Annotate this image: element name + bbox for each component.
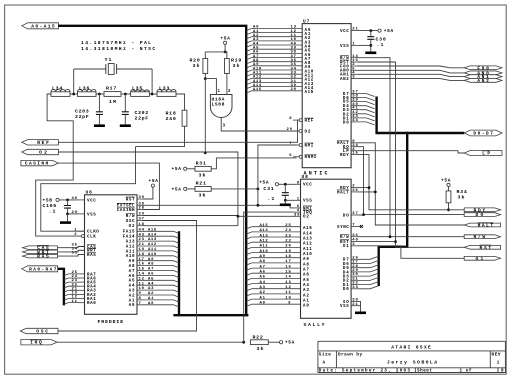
svg-text:VCC: VCC xyxy=(303,184,312,188)
svg-text:A2: A2 xyxy=(129,294,135,298)
svg-text:22: 22 xyxy=(285,240,291,244)
D bus tap xyxy=(357,118,375,121)
U6 pin 18 O2 xyxy=(137,225,143,227)
U6 pin 40 VCC xyxy=(78,199,85,201)
U8 pin 32 D1 xyxy=(351,284,357,286)
svg-text:A10: A10 xyxy=(148,253,157,257)
svg-text:A8: A8 xyxy=(148,263,154,267)
net label R/W xyxy=(464,235,500,239)
U7 pin 29 O2 xyxy=(299,130,302,133)
svg-text:Y1: Y1 xyxy=(105,57,112,63)
svg-text:D0: D0 xyxy=(343,288,349,292)
U7 pin 40 D4 xyxy=(351,105,357,107)
U8 pin 13 A4 xyxy=(246,284,252,286)
resistor R20 xyxy=(203,59,208,74)
svg-text:CASINH: CASINH xyxy=(117,209,135,213)
IC U8 SALLY body xyxy=(301,179,352,318)
svg-text:1: 1 xyxy=(297,197,300,201)
wire RDY net xyxy=(357,155,464,210)
U8 pin 39 O2 xyxy=(295,215,301,217)
net label AN0 xyxy=(464,71,502,75)
power +5A at U7 VCC xyxy=(378,29,381,32)
resistor R17 xyxy=(104,92,121,97)
U8 pin 38 SO xyxy=(351,300,357,302)
RA bus tap xyxy=(64,299,78,301)
wire to U6 VSS xyxy=(68,213,79,215)
U8 pin 15 A6 xyxy=(246,273,252,275)
wire crystal right down to L35/L33 node xyxy=(151,69,153,94)
junction DO xyxy=(362,213,365,216)
ground under C30 xyxy=(365,51,376,54)
RA bus tap xyxy=(64,290,78,292)
svg-text:A7: A7 xyxy=(303,269,309,273)
svg-text:A3: A3 xyxy=(260,286,266,290)
U6 pin 15 A7 xyxy=(137,271,179,273)
resistor R22 xyxy=(250,340,268,345)
net label AN1 xyxy=(464,75,502,79)
wire U8 VSS to ground xyxy=(357,306,360,312)
svg-text:22pF: 22pF xyxy=(75,114,89,120)
D bus tap xyxy=(357,122,375,125)
U8 pin 22 A12 xyxy=(246,242,252,244)
capacitor C30 plates xyxy=(367,37,374,40)
svg-text:R20: R20 xyxy=(190,58,200,64)
svg-text:Date: September 23, 2003: Date: September 23, 2003 xyxy=(319,369,411,374)
svg-text:+5A: +5A xyxy=(259,179,269,185)
svg-text:A6: A6 xyxy=(303,274,309,278)
svg-text:25: 25 xyxy=(285,224,291,228)
wire to C30 xyxy=(370,31,372,37)
svg-text:A3: A3 xyxy=(129,290,135,294)
svg-text:A2: A2 xyxy=(260,291,266,295)
data bus vertical and to label xyxy=(377,97,465,134)
wire R18 wrap to U6 CLKO xyxy=(41,147,136,232)
svg-text:VSS: VSS xyxy=(340,305,349,309)
svg-text:11: 11 xyxy=(285,291,291,295)
freddie address bus FA xyxy=(178,231,180,315)
svg-text:R18: R18 xyxy=(166,111,176,117)
wire crystal left xyxy=(74,68,106,70)
D bus tap xyxy=(357,98,375,101)
svg-text:OSC: OSC xyxy=(36,329,48,335)
svg-text:R22: R22 xyxy=(253,335,263,341)
U7 pin 30 A14 xyxy=(246,87,252,89)
svg-text:11: 11 xyxy=(139,282,145,286)
U7 pin 6 RNMI xyxy=(299,155,302,158)
svg-text:O2: O2 xyxy=(129,225,135,229)
svg-text:9: 9 xyxy=(288,302,291,306)
svg-text:A6: A6 xyxy=(260,271,266,275)
svg-text:A0-A15: A0-A15 xyxy=(31,23,55,29)
svg-text:VSS: VSS xyxy=(303,200,312,204)
wire +5A to R34 xyxy=(448,187,450,191)
junction R20 bottom xyxy=(204,77,207,80)
svg-text:36: 36 xyxy=(352,234,358,238)
junction R21/NMI xyxy=(257,188,260,191)
svg-text:Drawn by: Drawn by xyxy=(338,352,363,357)
svg-text:A6: A6 xyxy=(129,275,135,279)
svg-text:A5: A5 xyxy=(129,280,135,284)
net label RDY xyxy=(464,208,500,212)
svg-text:3k: 3k xyxy=(458,194,465,200)
svg-text:A3: A3 xyxy=(303,289,309,293)
svg-text:8: 8 xyxy=(289,117,292,121)
svg-text:44: 44 xyxy=(352,119,358,123)
wire U8 HALT to net xyxy=(357,191,375,193)
inductor L35 xyxy=(131,92,150,97)
U6 pin 16 A8 xyxy=(137,266,179,268)
svg-text:44: 44 xyxy=(139,228,145,232)
svg-text:.1: .1 xyxy=(267,196,274,202)
svg-text:+5B: +5B xyxy=(43,197,53,203)
junction L36/R17/C203 xyxy=(98,93,101,96)
wire to C31 xyxy=(284,184,286,192)
svg-text:21: 21 xyxy=(139,243,145,247)
capacitor C203 plates xyxy=(96,112,103,115)
junction RST U8 xyxy=(394,240,397,243)
U8 pin 11 A2 xyxy=(246,294,252,296)
svg-text:A11: A11 xyxy=(303,248,312,252)
svg-text:A13: A13 xyxy=(303,237,312,241)
wire IRQ net xyxy=(57,341,244,343)
wire AN1 net xyxy=(357,74,464,76)
wire to C202 xyxy=(124,94,126,112)
wire IRQ to U8 xyxy=(244,212,295,342)
IC U6 FREDDIE body xyxy=(85,195,138,314)
U7 pin 20 A15 xyxy=(246,91,252,93)
wire crystal right xyxy=(117,68,153,70)
U7 pin 37 A7 xyxy=(246,58,252,60)
U7 pin 38 D6 xyxy=(351,96,357,98)
svg-text:A9: A9 xyxy=(303,258,309,262)
svg-text:20: 20 xyxy=(72,211,78,215)
svg-text:19: 19 xyxy=(139,248,145,252)
U6 pin 38 EXTSEL xyxy=(137,204,143,206)
svg-text:CASINH: CASINH xyxy=(25,161,49,167)
svg-text:15: 15 xyxy=(285,271,291,275)
U7 pin 41 D3 xyxy=(351,109,357,111)
junction C105 top xyxy=(66,199,69,202)
U6 pin 28 CASINH xyxy=(137,209,143,211)
svg-text:A14: A14 xyxy=(260,229,269,233)
svg-text:29: 29 xyxy=(139,213,145,217)
wire L33 to R18 xyxy=(176,94,185,110)
svg-text:RDY: RDY xyxy=(340,154,349,158)
wire RAS xyxy=(58,254,85,256)
U8 pin 21 VSS xyxy=(351,305,357,307)
svg-text:17: 17 xyxy=(285,260,291,264)
svg-text:RST: RST xyxy=(480,245,492,251)
svg-text:IRQ: IRQ xyxy=(30,340,42,346)
U6 pin 19 A11 xyxy=(137,251,179,253)
RA bus tap xyxy=(64,294,78,296)
svg-text:AN2: AN2 xyxy=(477,78,489,84)
U8 pin 20 A11 xyxy=(246,247,252,249)
svg-text:A2: A2 xyxy=(148,292,154,296)
address bus bottom connector xyxy=(173,314,248,316)
svg-text:R21: R21 xyxy=(196,180,206,186)
resistor R19 xyxy=(225,59,230,74)
svg-text:39: 39 xyxy=(139,196,145,200)
svg-text:+5A: +5A xyxy=(441,177,451,183)
U6 pin 8 A1 xyxy=(137,300,179,302)
svg-text:14: 14 xyxy=(139,273,145,277)
svg-text:A2: A2 xyxy=(303,294,309,298)
svg-text:+5A: +5A xyxy=(285,340,295,346)
U7 pin 33 A11 xyxy=(246,74,252,76)
svg-text:A13: A13 xyxy=(148,238,157,242)
svg-text:D5: D5 xyxy=(343,101,349,105)
svg-text:A12: A12 xyxy=(126,245,135,249)
U7 pin 39 D5 xyxy=(351,100,357,102)
wire C105 bottom xyxy=(67,208,69,214)
svg-text:R19: R19 xyxy=(231,58,241,64)
capacitor C105 plates xyxy=(64,206,71,209)
wire R19 top xyxy=(225,52,227,59)
U7 pin 31 A13 xyxy=(246,83,252,85)
svg-text:C203: C203 xyxy=(75,109,89,115)
svg-text:13: 13 xyxy=(285,281,291,285)
power +5A above R19 xyxy=(224,41,227,44)
svg-text:L33: L33 xyxy=(159,86,169,92)
wire L34-L36 xyxy=(70,93,78,95)
svg-text:39: 39 xyxy=(294,213,300,217)
svg-text:FA14: FA14 xyxy=(123,236,135,240)
svg-text:A5: A5 xyxy=(260,276,266,280)
U8 pin 37 DO xyxy=(351,214,357,216)
svg-text:+5A: +5A xyxy=(220,36,230,42)
svg-text:A15: A15 xyxy=(305,91,314,95)
svg-text:+5A: +5A xyxy=(172,187,182,193)
wire REF net to U7 xyxy=(58,120,299,142)
U6 pin 10 A3 xyxy=(137,290,179,292)
U8 pin 36 R/W xyxy=(351,236,357,238)
bus RA0-RA7 xyxy=(58,269,64,306)
U8 pin 1 VSS xyxy=(295,199,301,201)
svg-text:HALT: HALT xyxy=(478,223,494,229)
power +5A at R22 xyxy=(280,341,283,344)
junction NMI/EXTSEL net xyxy=(257,204,260,207)
junction R17/L35/C202 xyxy=(124,93,127,96)
U7 pin 37 D7 xyxy=(351,93,357,95)
svg-text:10: 10 xyxy=(139,287,145,291)
svg-text:14: 14 xyxy=(285,276,291,280)
U8 pin 33 D0 xyxy=(351,288,357,290)
wire L36-R17 xyxy=(96,93,104,95)
U6 pin 1 CLKO xyxy=(78,230,85,232)
U8 pin 16 A7 xyxy=(246,268,252,270)
svg-text:A9: A9 xyxy=(260,255,266,259)
wire U7 VSS xyxy=(357,44,371,46)
wire L34 left to U6 CLK xyxy=(36,94,82,236)
svg-text:A: A xyxy=(323,360,326,365)
svg-text:.1: .1 xyxy=(377,42,384,48)
U7 pin 13 A0 xyxy=(246,28,252,30)
svg-text:15: 15 xyxy=(139,268,145,272)
U8 pin 27 D6 xyxy=(351,263,357,265)
U8 pin 31 D2 xyxy=(351,279,357,281)
junction C30 top xyxy=(369,29,372,32)
svg-text:19: 19 xyxy=(285,250,291,254)
wire R20 bottom xyxy=(204,74,206,79)
svg-text:A1: A1 xyxy=(260,296,266,300)
svg-text:A9: A9 xyxy=(148,258,154,262)
svg-text:37: 37 xyxy=(139,218,145,222)
U8 pin 10 A1 xyxy=(246,299,252,301)
svg-text:.1: .1 xyxy=(49,209,56,215)
U6 pin 22 RA4 xyxy=(78,285,85,287)
wire R31 to U7 RNMI xyxy=(211,158,296,169)
U8 pin 25 A15 xyxy=(246,227,252,229)
wire F00 net xyxy=(357,66,464,68)
net label OSC xyxy=(20,328,58,333)
wire O2 vertical lower xyxy=(237,216,239,225)
svg-text:C30: C30 xyxy=(376,37,386,43)
U6 pin 24 RA6 xyxy=(78,277,85,279)
svg-text:3: 3 xyxy=(352,243,355,247)
U6 pin 7 A0 xyxy=(137,305,179,307)
wire R20 junction down to O2 net xyxy=(204,79,206,153)
U7 pin 9 HALT xyxy=(351,142,357,144)
U8 pin 19 A10 xyxy=(246,253,252,255)
wire +5A to R31 xyxy=(187,168,195,170)
U6 pin 11 RA0 xyxy=(78,302,85,304)
wire R17-L35 xyxy=(121,93,131,95)
wire +5A to U8 VCC xyxy=(279,183,295,185)
svg-text:9: 9 xyxy=(139,292,142,296)
U8 pin 12 A3 xyxy=(246,289,252,291)
wire CASINH to U6 xyxy=(58,163,159,209)
junction C105/VSS xyxy=(66,213,69,216)
U6 pin 23 RA5 xyxy=(78,281,85,283)
svg-text:1: 1 xyxy=(74,228,77,232)
svg-text:OSC: OSC xyxy=(126,220,135,224)
svg-text:REF: REF xyxy=(37,140,49,146)
svg-text:A13: A13 xyxy=(126,241,135,245)
svg-text:A11: A11 xyxy=(148,248,157,252)
U7 pin 5 AN0 xyxy=(351,69,357,71)
svg-text:1: 1 xyxy=(497,360,500,365)
RA bus tap xyxy=(64,286,78,288)
svg-text:A0: A0 xyxy=(129,304,135,308)
junction O2 to U8 xyxy=(237,215,240,218)
ground under C31 xyxy=(280,204,291,207)
net label HALT xyxy=(464,223,500,227)
svg-text:6: 6 xyxy=(289,154,292,158)
U7 pin 14 R/W xyxy=(351,57,357,59)
ground under C202 xyxy=(120,124,131,127)
U7 pin 16 RST xyxy=(351,61,357,63)
net label RAS xyxy=(23,254,58,258)
wire C203 to ground xyxy=(98,114,100,124)
IC U7 ANTIC body xyxy=(302,24,351,168)
svg-text:12: 12 xyxy=(139,277,145,281)
svg-text:CLK: CLK xyxy=(87,236,96,240)
svg-text:3k: 3k xyxy=(199,173,206,179)
junction R20/O2 net xyxy=(204,151,207,154)
title block xyxy=(318,341,506,372)
svg-text:A1: A1 xyxy=(129,299,135,303)
wire to gate input 1 xyxy=(205,79,216,95)
svg-text:CLKO: CLKO xyxy=(87,231,99,235)
resistor R21 xyxy=(195,187,211,192)
capacitor C31 plates xyxy=(282,193,289,196)
svg-text:8: 8 xyxy=(297,181,300,185)
svg-text:VSS: VSS xyxy=(340,45,349,49)
svg-text:1 of: 1 of xyxy=(460,369,472,374)
svg-text:R/W: R/W xyxy=(474,234,486,240)
svg-text:1: 1 xyxy=(218,90,221,94)
U8 pin 26 D7 xyxy=(351,258,357,260)
svg-text:O1: O1 xyxy=(343,245,349,249)
svg-text:21: 21 xyxy=(352,303,358,307)
wire AN0 net xyxy=(357,70,464,73)
svg-text:A4: A4 xyxy=(303,284,309,288)
svg-text:17: 17 xyxy=(139,258,145,262)
U8 pin 40 RST xyxy=(351,241,357,243)
wire to R20 top xyxy=(205,51,225,53)
wire EXTSEL to U8 NMI net xyxy=(143,205,295,208)
svg-text:FA15: FA15 xyxy=(123,231,135,235)
svg-text:F00: F00 xyxy=(477,65,489,71)
wire to ground C31 xyxy=(284,200,286,203)
svg-text:+5A: +5A xyxy=(384,28,394,34)
wire OSC net to U6 xyxy=(58,221,197,332)
U6 pin 14 A6 xyxy=(137,275,179,277)
U7 pin 34 DO xyxy=(351,146,357,148)
svg-text:35: 35 xyxy=(352,189,358,193)
U7 pin 2 F00 xyxy=(351,65,357,67)
U7 pin 11 A2 xyxy=(246,37,252,39)
svg-text:10: 10 xyxy=(285,296,291,300)
U8 pin 3 O1 xyxy=(351,245,357,247)
svg-text:14.18757MHz - PAL: 14.18757MHz - PAL xyxy=(81,40,151,46)
svg-text:7: 7 xyxy=(352,224,355,228)
U8 pin 35 HALT xyxy=(351,191,357,193)
svg-text:20: 20 xyxy=(291,88,297,92)
resistor R18 xyxy=(182,110,187,126)
junction D bus xyxy=(406,132,409,135)
svg-text:U6: U6 xyxy=(86,189,93,195)
wire U8 R/W to net xyxy=(357,236,390,238)
wire R18 down and left xyxy=(136,126,185,146)
wire U6 R/W long xyxy=(143,215,238,217)
wire R/W net xyxy=(357,58,464,237)
U6 pin 9 A2 xyxy=(137,295,179,297)
U8 pin 14 A5 xyxy=(246,278,252,280)
U7 pin 42 D2 xyxy=(351,113,357,115)
D bus tap to U8 xyxy=(357,269,379,272)
svg-text:RA0: RA0 xyxy=(87,302,96,306)
U7 pin 21 VCC xyxy=(351,30,357,32)
svg-text:7: 7 xyxy=(139,302,142,306)
U7 pin 32 A12 xyxy=(246,78,252,80)
svg-text:1M: 1M xyxy=(109,99,116,105)
U8 pin 6 NMI xyxy=(295,207,301,209)
wire U8 RDY to net xyxy=(357,187,369,189)
svg-text:A15: A15 xyxy=(253,88,262,92)
U6 pin 37 OSC xyxy=(137,220,143,222)
svg-text:29: 29 xyxy=(287,128,293,132)
resistor R34 xyxy=(446,191,451,203)
junction C31/VSS xyxy=(284,199,287,202)
wire HALT net xyxy=(357,143,464,225)
D bus tap to U8 xyxy=(357,277,379,280)
svg-text:8: 8 xyxy=(139,297,142,301)
svg-text:43: 43 xyxy=(139,233,145,237)
svg-text:37: 37 xyxy=(352,212,358,216)
junction IRQ/R22 xyxy=(242,341,245,344)
